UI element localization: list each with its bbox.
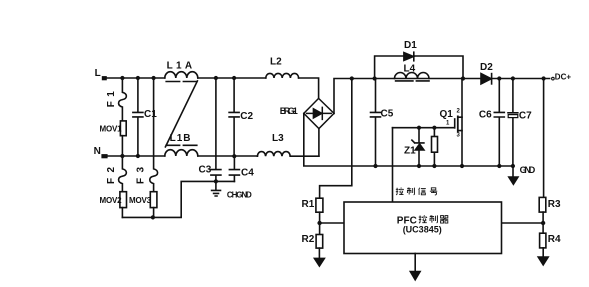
svg-text:DC+: DC+ <box>555 72 572 81</box>
svg-text:C1: C1 <box>144 109 157 120</box>
resistor gate R <box>433 128 435 166</box>
svg-text:MOV2: MOV2 <box>100 196 123 205</box>
wire DC rail after D2 <box>492 78 550 80</box>
inductor L4 <box>395 73 430 79</box>
ground arrow below controller <box>410 271 421 280</box>
svg-text:C6: C6 <box>479 110 492 121</box>
inductor L2 <box>266 73 299 78</box>
wire bridge right corner to DC rail <box>334 79 481 114</box>
svg-text:R4: R4 <box>548 234 561 245</box>
svg-text:L4: L4 <box>404 64 416 75</box>
svg-text:C2: C2 <box>240 111 253 122</box>
svg-text:C3: C3 <box>199 165 212 176</box>
diode D1 branch <box>375 56 463 79</box>
svg-text:C5: C5 <box>381 109 394 120</box>
capacitor C2 <box>229 78 239 156</box>
ground arrow below R4 <box>538 257 549 266</box>
wire N rail segment 1 <box>108 155 165 157</box>
svg-text:C7: C7 <box>519 111 532 122</box>
svg-text:BRG-1: BRG-1 <box>280 106 298 116</box>
wire L rail to bridge top corner <box>299 78 319 98</box>
svg-text:2: 2 <box>457 109 461 115</box>
wire N rail segment 2 <box>198 155 258 157</box>
diode D2 <box>481 74 491 84</box>
svg-text:L2: L2 <box>270 57 282 68</box>
svg-text:GND: GND <box>520 165 536 175</box>
wire R1 sense line <box>320 79 352 199</box>
svg-text:MOV3: MOV3 <box>129 196 152 205</box>
resistor R3 <box>539 197 546 212</box>
svg-text:R1: R1 <box>302 199 315 210</box>
svg-text:MOV1: MOV1 <box>100 124 123 133</box>
svg-text:Q1: Q1 <box>440 109 454 120</box>
fuse F1 <box>119 78 127 121</box>
wire L rail segment 1 <box>107 77 165 79</box>
svg-text:D2: D2 <box>480 62 493 73</box>
svg-text:F2: F2 <box>106 162 117 184</box>
core dashes L1A <box>166 81 197 83</box>
svg-text:L: L <box>95 68 101 79</box>
svg-text:F3: F3 <box>136 162 147 184</box>
core diagonal L1 <box>165 81 197 147</box>
svg-text:R2: R2 <box>302 234 315 245</box>
varistor MOV1 <box>120 121 126 136</box>
core dashes L4 <box>396 80 429 82</box>
wire R1R2 node to controller <box>320 222 344 224</box>
capacitor C1 <box>133 78 143 156</box>
wire control signal vertical <box>392 128 394 202</box>
ground GND arrow <box>512 166 514 177</box>
svg-text:3: 3 <box>457 133 461 139</box>
wire controller ground pin <box>414 254 416 272</box>
ground arrow below R2 <box>314 258 325 267</box>
svg-text:PFC: PFC <box>397 215 417 226</box>
svg-text:L1B: L1B <box>170 133 192 144</box>
node N terminal <box>101 154 107 158</box>
fuse F3 <box>150 78 158 192</box>
resistor R1 <box>316 198 323 212</box>
wire L rail segment 2 <box>198 77 266 79</box>
varistor MOV3 <box>150 192 157 208</box>
capacitor C6 <box>494 79 504 167</box>
svg-text:D1: D1 <box>404 40 417 51</box>
svg-text:1: 1 <box>446 121 450 127</box>
core dashes L1B <box>166 144 197 146</box>
inductor L1A <box>165 72 198 78</box>
ground chassis CHGND <box>212 181 221 196</box>
capacitor C5 <box>371 79 381 167</box>
varistor MOV2 <box>120 192 127 208</box>
zener Z1 <box>418 128 420 143</box>
resistor R4 <box>540 233 546 248</box>
label 控制信号 (hand-drawn strokes) <box>396 188 437 195</box>
svg-text:Z1: Z1 <box>404 146 416 157</box>
wire bridge bottom corner lead <box>318 129 320 157</box>
transistor Q1 MOSFET <box>461 79 463 167</box>
controller box UC3845 <box>344 202 502 254</box>
wire bridge left corner down to ground rail <box>304 113 513 166</box>
label PFC控制器 <box>397 215 448 226</box>
inductor L1B <box>165 150 198 156</box>
inductor L3 <box>257 152 290 157</box>
wire R3R4 node to controller <box>502 222 544 224</box>
svg-text:N: N <box>94 146 101 157</box>
svg-text:C4: C4 <box>241 168 254 179</box>
bridge BRG-1 <box>304 98 334 128</box>
wire N rail to bridge bottom corner <box>290 155 319 157</box>
svg-text:R3: R3 <box>548 199 561 210</box>
wire chassis rail <box>122 181 234 217</box>
fuse F2 <box>119 156 127 192</box>
svg-text:CHGND: CHGND <box>227 191 252 200</box>
wire R3 sense line <box>543 79 545 198</box>
node L terminal <box>102 76 107 80</box>
svg-text:L1A: L1A <box>167 61 196 72</box>
resistor R2 <box>316 235 323 249</box>
capacitor C3 <box>211 78 221 181</box>
capacitor C7 polarized <box>508 79 518 167</box>
svg-text:L3: L3 <box>272 133 284 144</box>
node DC+ terminal circle <box>552 77 555 80</box>
capacitor C4 <box>229 156 239 181</box>
svg-text:F1: F1 <box>106 87 117 107</box>
